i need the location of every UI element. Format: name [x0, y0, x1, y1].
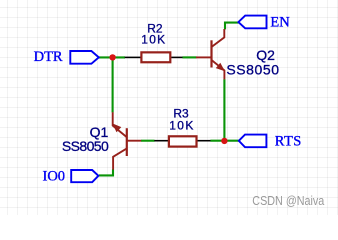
port RTS [239, 135, 267, 148]
wire R3 to RTS [210, 140, 238, 142]
resistor R3 [154, 136, 210, 146]
svg-text:IO0: IO0 [43, 168, 66, 184]
svg-text:RTS: RTS [275, 134, 302, 150]
junction node RTS [221, 138, 227, 144]
svg-text:10K: 10K [141, 33, 165, 47]
svg-text:CSDN @Naiva: CSDN @Naiva [252, 194, 324, 208]
transistor Q1 [112, 112, 141, 169]
port EN [238, 16, 266, 29]
port DTR [70, 51, 99, 64]
wire Q2 collector to EN [225, 23, 239, 30]
transistor Q2 [196, 29, 225, 79]
svg-text:EN: EN [270, 14, 290, 30]
svg-text:10K: 10K [169, 118, 193, 132]
port IO0 [71, 170, 98, 182]
svg-text:SS8050: SS8050 [62, 138, 109, 154]
svg-text:SS8050: SS8050 [226, 61, 279, 77]
wire R2 to Q2 base [182, 56, 196, 58]
svg-text:DTR: DTR [34, 49, 63, 65]
wire junction down to Q1 emitter [112, 57, 114, 112]
wire DTR to R2 [99, 56, 125, 58]
junction node DTR [109, 54, 115, 60]
resistor R2 [125, 52, 183, 62]
wire Q2 emitter down to RTS node [223, 79, 225, 141]
wire IO0 to Q1 collector [99, 169, 113, 175]
wire Q1 base to R3 [141, 140, 155, 142]
